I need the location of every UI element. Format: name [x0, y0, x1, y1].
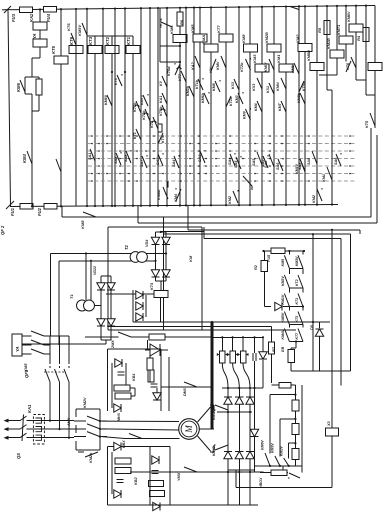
svg-text:KM2V: KM2V	[280, 446, 284, 456]
svg-text:KM1V: KM1V	[295, 163, 299, 174]
svg-text:QS: QS	[16, 453, 21, 459]
svg-text:KM8: KM8	[80, 220, 85, 229]
svg-text:KT7: KT7	[178, 73, 182, 81]
svg-text:KT7: KT7	[295, 332, 299, 340]
svg-text:KM8: KM8	[241, 34, 246, 43]
svg-text:R5: R5	[317, 27, 322, 33]
svg-text:FU3: FU3	[11, 13, 16, 22]
svg-text:KM5B: KM5B	[212, 410, 216, 420]
svg-text:KMV: KMV	[216, 61, 220, 70]
svg-text:KT3b: KT3b	[159, 106, 163, 116]
svg-text:R4: R4	[356, 35, 361, 41]
svg-text:KT7: KT7	[216, 25, 221, 33]
svg-text:KM: KM	[188, 255, 193, 262]
svg-text:KM2b: KM2b	[186, 85, 190, 96]
svg-text:AMX: AMX	[67, 417, 71, 427]
svg-text:KMT1: KMT1	[337, 25, 341, 35]
svg-text:HBOX: HBOX	[259, 477, 263, 488]
svg-text:X3: X3	[327, 420, 331, 427]
svg-text:KT2: KT2	[105, 36, 110, 45]
svg-text:FU2: FU2	[37, 207, 42, 216]
svg-text:KV: KV	[209, 67, 213, 73]
svg-text:KT6: KT6	[346, 62, 350, 70]
svg-text:SA4: SA4	[228, 157, 232, 165]
svg-text:KM2: KM2	[228, 195, 232, 204]
svg-text:KM4V: KM4V	[281, 329, 285, 339]
svg-text:FU1: FU1	[10, 207, 15, 216]
svg-text:KMIV: KMIV	[264, 62, 268, 72]
svg-text:KM1V: KM1V	[281, 294, 285, 304]
svg-text:KM2V: KM2V	[83, 397, 87, 408]
svg-text:YA: YA	[15, 346, 20, 352]
svg-text:KM4: KM4	[254, 103, 258, 111]
svg-text:SA6: SA6	[334, 157, 338, 165]
svg-text:KT2b: KT2b	[142, 110, 146, 120]
svg-text:KT1: KT1	[126, 36, 131, 45]
svg-text:M: M	[184, 425, 194, 434]
svg-text:KM6: KM6	[16, 82, 21, 92]
svg-text:KM1: KM1	[322, 174, 326, 182]
svg-text:KM1: KM1	[291, 65, 295, 73]
svg-text:KX1: KX1	[266, 86, 270, 93]
svg-text:KT6: KT6	[66, 23, 71, 31]
svg-text:SA7: SA7	[156, 157, 160, 165]
svg-text:KM5: KM5	[281, 259, 285, 266]
svg-text:MHX: MHX	[117, 412, 121, 421]
svg-text:KA1: KA1	[27, 404, 32, 413]
svg-text:YA: YA	[32, 33, 37, 39]
svg-text:KM6V: KM6V	[347, 11, 351, 22]
svg-text:KM8b: KM8b	[297, 92, 301, 103]
svg-text:KV: KV	[159, 80, 163, 86]
svg-text:KX3: KX3	[252, 83, 256, 91]
svg-text:SA6: SA6	[276, 162, 280, 170]
svg-text:KT2b: KT2b	[240, 62, 244, 72]
svg-text:SA7: SA7	[140, 159, 144, 167]
svg-text:SA5: SA5	[234, 160, 238, 168]
svg-text:KA2: KA2	[29, 13, 34, 22]
svg-text:FU4: FU4	[46, 13, 51, 22]
svg-text:SA8: SA8	[307, 158, 311, 165]
svg-text:SA1: SA1	[88, 153, 92, 160]
svg-text:VD22: VD22	[93, 266, 97, 275]
svg-text:2MX: 2MX	[111, 340, 115, 349]
svg-text:KM2b: KM2b	[89, 452, 93, 463]
svg-text:DMX: DMX	[183, 387, 187, 396]
svg-text:KMV: KMV	[243, 110, 247, 119]
svg-text:KT1b: KT1b	[133, 102, 137, 112]
svg-text:SA8: SA8	[264, 160, 268, 168]
svg-text:KM2: KM2	[312, 194, 316, 203]
svg-text:KM8: KM8	[212, 83, 216, 91]
svg-text:KA2: KA2	[191, 62, 195, 70]
svg-text:KM2B: KM2B	[265, 32, 269, 43]
svg-text:T2: T2	[124, 244, 129, 250]
svg-text:KT6d: KT6d	[167, 66, 171, 76]
svg-text:YMX: YMX	[177, 472, 181, 481]
svg-text:KT1: KT1	[295, 298, 299, 305]
svg-text:KB1: KB1	[132, 373, 136, 381]
svg-text:KT5: KT5	[51, 45, 56, 54]
svg-text:R6: R6	[179, 19, 184, 25]
svg-text:KMT: KMT	[278, 102, 282, 111]
svg-text:KM4: KM4	[22, 153, 27, 163]
svg-text:T1: T1	[69, 294, 74, 299]
svg-text:KT1b: KT1b	[195, 79, 199, 89]
svg-text:KM1B: KM1B	[327, 38, 331, 49]
svg-text:KT4: KT4	[114, 78, 118, 85]
svg-text:KM3: KM3	[235, 95, 239, 103]
svg-text:KT2b: KT2b	[229, 96, 233, 106]
svg-text:KM3V: KM3V	[295, 256, 299, 266]
svg-text:SA8: SA8	[114, 156, 118, 164]
svg-text:KT4: KT4	[150, 282, 154, 290]
svg-text:KM5V: KM5V	[77, 25, 82, 36]
svg-text:KT3: KT3	[88, 36, 93, 45]
svg-text:KT2: KT2	[150, 120, 154, 128]
svg-text:KA1: KA1	[159, 96, 163, 103]
svg-text:QF 2: QF 2	[0, 225, 5, 235]
svg-text:KM6b: KM6b	[157, 189, 161, 200]
svg-text:SA4: SA4	[172, 159, 176, 167]
svg-text:KM6b: KM6b	[201, 92, 205, 103]
svg-text:KX3: KX3	[231, 82, 235, 89]
svg-text:KM6V: KM6V	[261, 440, 265, 450]
svg-text:KM8B: KM8B	[307, 50, 311, 61]
svg-text:KT8b: KT8b	[302, 81, 306, 91]
svg-text:KMN: KMN	[276, 82, 280, 91]
svg-text:KM1: KM1	[276, 54, 281, 63]
svg-text:KM5: KM5	[190, 24, 195, 33]
svg-text:KT2: KT2	[295, 279, 299, 286]
svg-text:KM4: KM4	[174, 193, 178, 202]
svg-text:QF1: QF1	[24, 369, 29, 378]
svg-text:KM6V: KM6V	[104, 94, 108, 105]
svg-text:KM2: KM2	[295, 34, 300, 43]
svg-text:SA5: SA5	[252, 158, 256, 166]
svg-text:SA3: SA3	[198, 154, 202, 162]
svg-text:KMTY: KMTY	[140, 94, 144, 105]
svg-text:EB: EB	[281, 346, 285, 352]
svg-text:KT5: KT5	[365, 120, 369, 128]
svg-text:KM5V: KM5V	[281, 312, 285, 322]
svg-text:VD4: VD4	[145, 239, 149, 247]
svg-text:KB2: KB2	[134, 477, 138, 485]
svg-text:KMA: KMA	[201, 35, 206, 44]
svg-text:KM3: KM3	[252, 54, 257, 63]
svg-text:KT3: KT3	[295, 316, 299, 323]
svg-text:KT6: KT6	[158, 18, 163, 26]
svg-text:KM3V: KM3V	[271, 443, 275, 453]
svg-text:KM2V: KM2V	[281, 276, 285, 286]
svg-text:SA8: SA8	[124, 154, 128, 162]
